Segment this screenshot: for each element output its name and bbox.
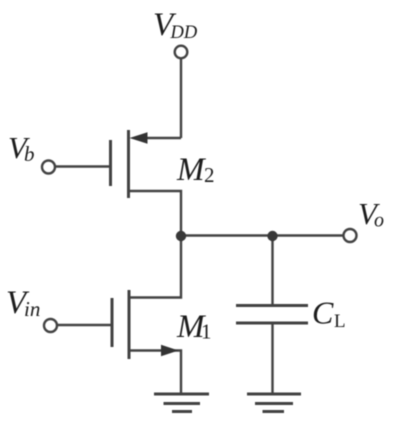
svg-text:in: in [24,297,40,321]
svg-text:b: b [24,142,35,166]
svg-text:2: 2 [204,163,215,187]
svg-text:L: L [334,311,346,332]
svg-text:o: o [374,210,384,232]
svg-text:C: C [312,295,334,331]
svg-text:DD: DD [170,23,198,43]
svg-text:1: 1 [201,320,212,344]
svg-text:M: M [176,152,206,188]
